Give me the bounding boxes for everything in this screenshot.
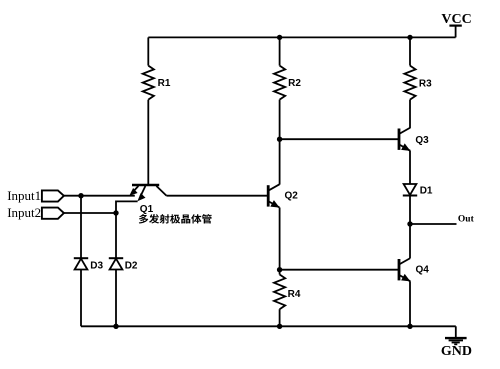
svg-text:VCC: VCC — [441, 12, 471, 27]
label 多发射极晶体管 (multi-emitter transistor) — [139, 214, 212, 223]
wire Input2 node down to D2 — [115, 213, 117, 258]
junction R2 top on VCC rail — [277, 35, 282, 40]
wire D3 to ground rail — [80, 270, 82, 327]
wire Out stub — [410, 223, 457, 225]
wire R2 top — [279, 37, 281, 65]
wire R3 bottom to Q3 collector — [409, 100, 411, 128]
wire R1 bottom to Q1 base — [147, 100, 149, 185]
node Input1 terminal flag — [42, 190, 64, 201]
transistor Q3 — [399, 128, 410, 151]
svg-text:Q4: Q4 — [416, 265, 430, 276]
junction Out node — [407, 221, 412, 226]
svg-text:R2: R2 — [288, 78, 301, 89]
wire ground rail — [81, 325, 456, 327]
junction R2/Q3 base node — [277, 137, 282, 142]
junction Q4 emitter on ground rail — [407, 324, 412, 329]
junction Input1/D3 node — [78, 193, 83, 198]
junction D2 on ground rail — [113, 324, 118, 329]
wire Q4 base lead — [280, 269, 399, 271]
power VCC terminal — [449, 26, 461, 38]
wire R4 bottom — [279, 309, 281, 326]
svg-text:R3: R3 — [419, 79, 432, 90]
wire Input1 node down to D3 — [80, 196, 82, 259]
wire Input1 to Q1 emitter1 — [64, 195, 135, 197]
svg-text:Q1: Q1 — [140, 204, 154, 215]
ground GND symbol — [445, 326, 467, 344]
diode D1 — [403, 184, 417, 196]
wire R3 top — [409, 37, 411, 65]
diode D2 — [109, 258, 123, 269]
wire Input2 step to Q1 emitter2 — [116, 201, 138, 213]
svg-text:D2: D2 — [125, 261, 138, 272]
wire Q1 collector to Q2 base — [166, 195, 268, 197]
svg-text:D3: D3 — [90, 261, 103, 272]
wire D1 to Out node — [409, 196, 411, 225]
transistor Q1 (multi-emitter) — [129, 185, 166, 201]
wire Q3 emitter to D1 — [409, 151, 411, 184]
svg-text:GND: GND — [441, 344, 472, 359]
wire Q2 emitter down — [279, 208, 281, 270]
wire Input2 to D2 node — [64, 212, 116, 214]
wire Q3 base lead — [280, 138, 399, 140]
svg-text:Input1: Input1 — [7, 188, 41, 203]
wire Out node to Q4 collector — [409, 224, 411, 258]
junction R3 top on VCC rail — [407, 35, 412, 40]
resistor R1 — [143, 66, 154, 100]
junction R4 on ground rail — [277, 324, 282, 329]
svg-text:D1: D1 — [420, 185, 433, 196]
svg-text:Input2: Input2 — [7, 205, 41, 220]
svg-text:R4: R4 — [288, 289, 301, 300]
resistor R2 — [274, 66, 285, 100]
wire R2 bottom to Q2 collector — [279, 100, 281, 185]
svg-text:Q3: Q3 — [415, 135, 429, 146]
wire VCC rail — [148, 36, 455, 38]
resistor R3 — [404, 66, 415, 100]
resistor R4 — [274, 275, 285, 310]
transistor Q4 — [399, 258, 410, 281]
wire R4 top stub — [279, 270, 281, 275]
svg-text:Out: Out — [458, 214, 475, 224]
transistor Q2 — [268, 184, 279, 207]
wire R1 top — [147, 37, 149, 65]
diode D3 — [74, 258, 88, 269]
svg-text:Q2: Q2 — [285, 191, 299, 202]
svg-text:R1: R1 — [158, 78, 171, 89]
wire D2 to ground rail — [115, 270, 117, 327]
node Input2 terminal flag — [42, 208, 64, 219]
junction Input2/D2 node — [113, 210, 118, 215]
wire Q4 emitter to ground rail — [409, 281, 411, 326]
junction Q2 emitter/R4/Q4 base node — [277, 267, 282, 272]
